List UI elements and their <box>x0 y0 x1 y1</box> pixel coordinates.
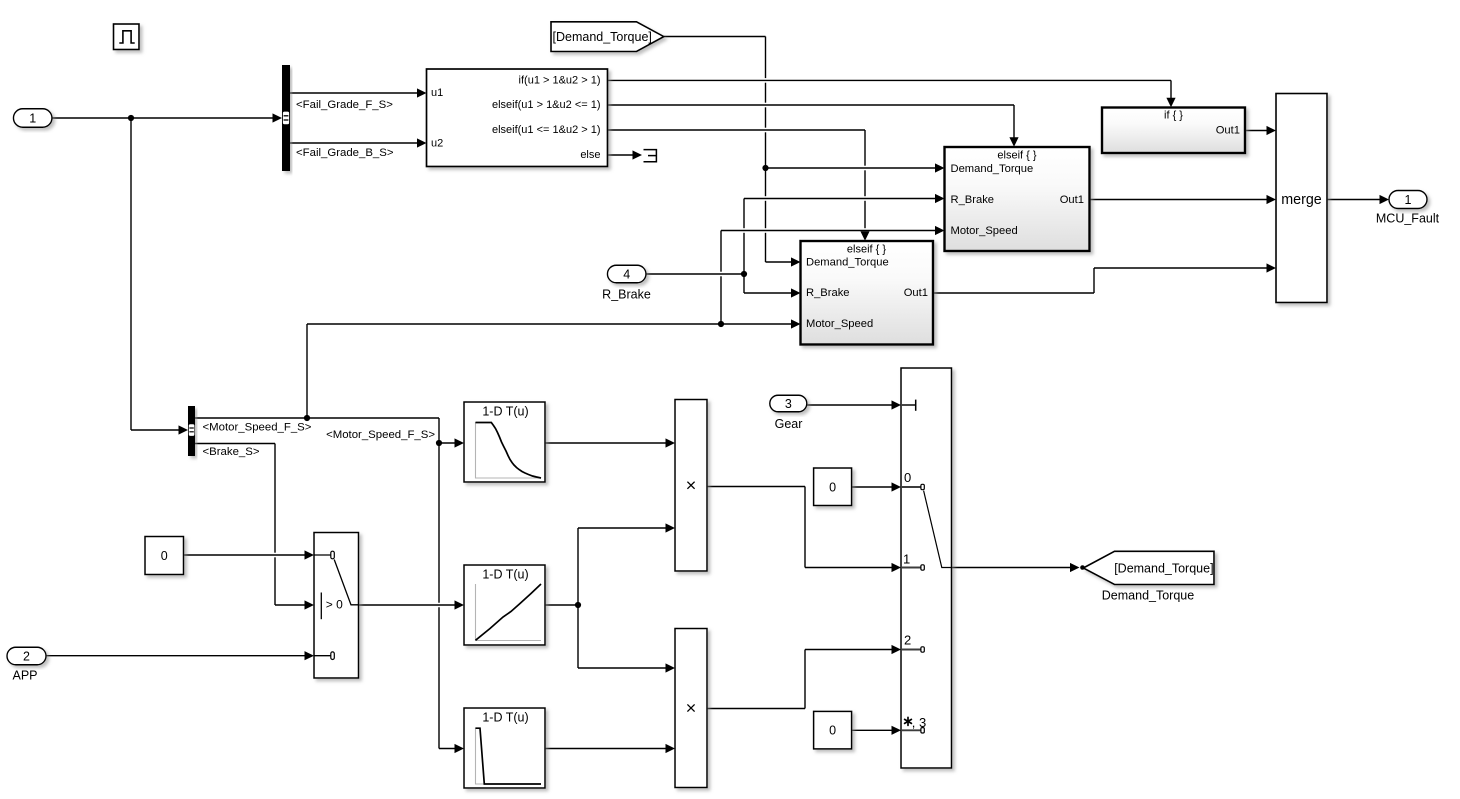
svg-text:u1: u1 <box>431 87 443 99</box>
svg-text:APP: APP <box>12 669 37 683</box>
svg-text:1: 1 <box>29 112 36 126</box>
svg-text:[Demand_Torque]: [Demand_Torque] <box>553 30 652 44</box>
svg-text:Out1: Out1 <box>1216 125 1240 137</box>
svg-text:1-D T(u): 1-D T(u) <box>482 568 528 582</box>
svg-text:R_Brake: R_Brake <box>806 287 850 299</box>
svg-text:Motor_Speed: Motor_Speed <box>806 318 873 330</box>
svg-text:<Motor_Speed_F_S>: <Motor_Speed_F_S> <box>203 422 312 434</box>
svg-text:Motor_Speed: Motor_Speed <box>951 225 1018 237</box>
svg-text:Out1: Out1 <box>904 287 928 299</box>
svg-text:Demand_Torque: Demand_Torque <box>1102 589 1194 603</box>
svg-text:3: 3 <box>785 397 792 411</box>
svg-text:1: 1 <box>1405 193 1412 207</box>
svg-text:0: 0 <box>829 480 836 494</box>
svg-text:<Fail_Grade_B_S>: <Fail_Grade_B_S> <box>296 147 394 159</box>
svg-text:Out1: Out1 <box>1060 194 1084 206</box>
svg-text:else: else <box>580 149 600 161</box>
svg-text:1-D T(u): 1-D T(u) <box>482 405 528 419</box>
svg-text:<Fail_Grade_F_S>: <Fail_Grade_F_S> <box>296 99 393 111</box>
svg-text:1-D T(u): 1-D T(u) <box>482 711 528 725</box>
svg-text:R_Brake: R_Brake <box>951 194 995 206</box>
svg-text:elseif { }: elseif { } <box>997 150 1036 162</box>
svg-text:Demand_Torque: Demand_Torque <box>806 257 889 269</box>
svg-text:elseif { }: elseif { } <box>847 244 886 256</box>
svg-text:if { }: if { } <box>1164 110 1183 122</box>
svg-text:1: 1 <box>903 551 910 566</box>
svg-text:0: 0 <box>904 470 911 485</box>
svg-text:2: 2 <box>904 633 911 648</box>
svg-text:elseif(u1 > 1&u2 <= 1): elseif(u1 > 1&u2 <= 1) <box>492 99 601 111</box>
svg-text:0: 0 <box>829 724 836 738</box>
svg-text:, 3: , 3 <box>912 715 926 730</box>
svg-text:merge: merge <box>1281 192 1322 208</box>
svg-text:R_Brake: R_Brake <box>602 288 651 302</box>
svg-text:[Demand_Torque]: [Demand_Torque] <box>1114 561 1213 575</box>
svg-text:4: 4 <box>623 268 630 282</box>
svg-text:u2: u2 <box>431 137 443 149</box>
svg-text:> 0: > 0 <box>326 598 343 612</box>
svg-text:if(u1 > 1&u2 > 1): if(u1 > 1&u2 > 1) <box>519 75 601 87</box>
svg-text:elseif(u1 <= 1&u2 > 1): elseif(u1 <= 1&u2 > 1) <box>492 124 601 136</box>
svg-text:MCU_Fault: MCU_Fault <box>1376 212 1440 226</box>
svg-text:<Brake_S>: <Brake_S> <box>203 446 260 458</box>
svg-text:2: 2 <box>23 650 30 664</box>
svg-text:Demand_Torque: Demand_Torque <box>951 163 1034 175</box>
svg-text:0: 0 <box>161 549 168 563</box>
svg-text:Gear: Gear <box>775 417 803 431</box>
svg-text:<Motor_Speed_F_S>: <Motor_Speed_F_S> <box>326 429 435 441</box>
